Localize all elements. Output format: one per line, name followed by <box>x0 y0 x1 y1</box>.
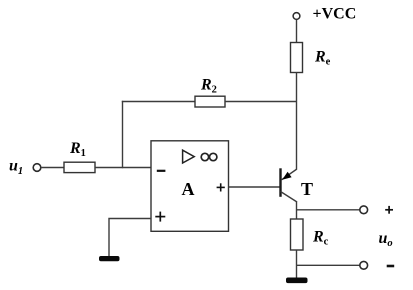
wire Rc to ground <box>296 250 298 278</box>
ground (right) <box>286 278 308 284</box>
wire Re to transistor emitter <box>296 73 298 170</box>
op-amp output plus mark <box>217 186 225 188</box>
op-amp minus input mark <box>157 170 166 172</box>
wire op-amp output to transistor base <box>229 186 281 188</box>
svg-text:A: A <box>182 179 195 199</box>
wire to output plus terminal <box>297 209 361 211</box>
resistor Re <box>291 43 303 73</box>
transistor T collector diagonal <box>281 192 298 203</box>
wire junction up to feedback R2 <box>122 101 124 168</box>
resistor R1 <box>64 162 95 172</box>
wire VCC to Re <box>296 20 298 43</box>
svg-text:T: T <box>301 179 313 199</box>
transistor T emitter arrow (PNP, pointing into base) <box>282 172 291 180</box>
wire feedback right segment to emitter node <box>225 101 297 103</box>
wire R1 to op-amp inverting input <box>95 167 151 169</box>
op-amp infinity symbol <box>201 153 208 160</box>
svg-text:+VCC: +VCC <box>313 5 357 22</box>
op-amp U1 body <box>151 141 229 232</box>
node output + terminal <box>360 206 368 214</box>
op-amp gain triangle <box>183 150 195 163</box>
output - mark <box>387 265 395 268</box>
wire collector down to Rc <box>296 202 298 220</box>
op-amp plus input mark <box>155 216 165 218</box>
wire to output minus terminal <box>297 264 361 266</box>
node u1 input terminal <box>33 164 41 172</box>
wire u1 to R1 <box>41 167 64 169</box>
transistor T emitter diagonal <box>282 169 297 180</box>
node output - terminal <box>360 261 368 269</box>
ground (left) <box>99 256 120 261</box>
resistor Rc <box>291 219 304 250</box>
node +VCC terminal <box>293 13 300 20</box>
wire op-amp plus input to ground <box>109 219 151 257</box>
output + mark <box>385 209 393 211</box>
transistor T base bar <box>279 168 281 197</box>
wire feedback left segment <box>122 101 195 103</box>
resistor R2 <box>195 96 225 107</box>
